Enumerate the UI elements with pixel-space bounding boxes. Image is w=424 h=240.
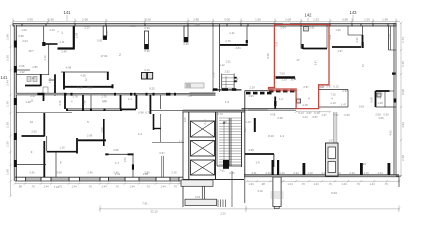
svg-text:4.28: 4.28 <box>80 74 86 78</box>
svg-text:.70: .70 <box>88 185 92 189</box>
svg-text:2.86: 2.86 <box>113 148 119 152</box>
svg-text:0.30: 0.30 <box>144 49 150 53</box>
room4 top wall <box>319 89 348 91</box>
svg-text:1.17: 1.17 <box>187 94 193 98</box>
stair dark blocks <box>234 77 237 79</box>
svg-text:1-5: 1-5 <box>179 140 183 144</box>
svg-text:0.30: 0.30 <box>229 171 235 175</box>
svg-text:2.88: 2.88 <box>194 23 200 27</box>
shaft double box <box>142 73 147 80</box>
svg-text:.70: .70 <box>384 182 388 186</box>
svg-text:7.10: 7.10 <box>330 93 336 97</box>
svg-text:0.98: 0.98 <box>18 34 24 38</box>
svg-text:1.50: 1.50 <box>255 17 261 21</box>
bottom dimension line left wing <box>14 182 183 184</box>
wall room7 bottom <box>44 43 58 45</box>
svg-text:12: 12 <box>31 76 35 80</box>
svg-text:1-3: 1-3 <box>280 134 284 138</box>
corridor wall dark blocks right <box>246 92 272 95</box>
stair direction arrow <box>224 122 227 160</box>
svg-text:8.16: 8.16 <box>130 24 136 28</box>
svg-text:141: 141 <box>64 10 72 15</box>
wall y109 <box>248 109 268 111</box>
svg-text:10: 10 <box>30 120 34 124</box>
wall wc vertical dark <box>40 74 42 86</box>
svg-text:0.76: 0.76 <box>145 111 151 115</box>
corridor wall right of core <box>245 90 269 92</box>
svg-text:141: 141 <box>1 75 9 80</box>
bottom dimension labels right wing <box>248 171 388 186</box>
left dimension line <box>9 24 11 197</box>
svg-text:3.08: 3.08 <box>56 171 62 175</box>
svg-text:0.39: 0.39 <box>344 113 350 117</box>
stair right wall <box>241 112 243 167</box>
room5 walls <box>78 139 106 141</box>
svg-text:1.44: 1.44 <box>287 182 293 186</box>
svg-text:7.06: 7.06 <box>279 72 285 76</box>
ventilation block <box>326 143 339 176</box>
svg-text:2.31: 2.31 <box>251 171 257 175</box>
svg-text:0.30: 0.30 <box>97 39 103 43</box>
duct wall to vent block <box>333 112 337 143</box>
svg-text:1.15: 1.15 <box>281 78 287 82</box>
svg-text:17.61: 17.61 <box>101 54 108 58</box>
svg-text:1.38: 1.38 <box>377 101 383 105</box>
svg-text:1.44: 1.44 <box>43 185 49 189</box>
svg-text:0.98: 0.98 <box>401 89 405 95</box>
svg-text:0.98: 0.98 <box>370 97 374 103</box>
svg-text:3.47: 3.47 <box>314 60 318 66</box>
svg-text:1.99: 1.99 <box>382 17 388 21</box>
svg-text:1.07: 1.07 <box>328 139 334 143</box>
svg-text:2.97: 2.97 <box>342 89 348 93</box>
svg-text:1.44: 1.44 <box>313 182 319 186</box>
svg-text:2.58: 2.58 <box>74 32 78 38</box>
vent shaft small <box>297 99 301 103</box>
svg-text:1.56: 1.56 <box>6 141 10 147</box>
right dimension line <box>400 22 402 177</box>
elevator shaft walls <box>188 111 190 180</box>
svg-text:2.88: 2.88 <box>193 17 199 21</box>
svg-text:1.36: 1.36 <box>243 127 247 133</box>
svg-text:2.30: 2.30 <box>6 122 10 128</box>
svg-text:.60: .60 <box>290 78 294 82</box>
room number labels <box>28 30 381 165</box>
svg-text:2.46: 2.46 <box>87 171 93 175</box>
svg-text:1.05: 1.05 <box>21 28 27 32</box>
svg-text:2.48: 2.48 <box>302 103 308 107</box>
svg-text:2.61: 2.61 <box>309 26 315 30</box>
svg-text:.70: .70 <box>31 185 35 189</box>
pier x104 <box>103 26 106 40</box>
svg-text:4.08: 4.08 <box>270 113 276 117</box>
svg-text:0.30: 0.30 <box>144 26 150 30</box>
svg-text:3.95: 3.95 <box>27 17 33 21</box>
svg-text:1.00: 1.00 <box>183 117 187 123</box>
svg-text:1.73: 1.73 <box>388 34 392 40</box>
svg-text:1-2: 1-2 <box>138 132 142 136</box>
svg-text:2: 2 <box>362 64 364 68</box>
svg-text:0.87: 0.87 <box>312 115 318 119</box>
wall x327 inside red <box>326 25 328 49</box>
free column x145 <box>145 31 149 49</box>
svg-text:1.30: 1.30 <box>248 182 254 186</box>
wall y70 left <box>16 69 30 71</box>
wall y110 right of window wall <box>150 109 183 111</box>
svg-text:1-9: 1-9 <box>255 161 259 165</box>
svg-text:1.52: 1.52 <box>224 70 230 74</box>
wall room11 right dark <box>43 93 45 101</box>
svg-text:2.23: 2.23 <box>84 26 90 30</box>
svg-text:2.00: 2.00 <box>100 127 104 133</box>
svg-text:2.96: 2.96 <box>87 134 93 138</box>
room 1-7 walls <box>245 153 274 155</box>
svg-text:1.33: 1.33 <box>313 17 319 21</box>
room3 top wall <box>61 71 109 73</box>
svg-text:.70: .70 <box>328 182 332 186</box>
svg-text:1.50: 1.50 <box>123 157 127 163</box>
svg-text:1.44: 1.44 <box>101 185 107 189</box>
svg-text:7.91: 7.91 <box>142 202 148 206</box>
svg-text:1-2: 1-2 <box>279 97 283 101</box>
svg-text:2.34: 2.34 <box>349 171 355 175</box>
svg-text:2.70: 2.70 <box>217 112 223 116</box>
svg-text:1: 1 <box>61 31 63 35</box>
small room marks <box>103 119 105 146</box>
right bay wall segment <box>388 26 390 50</box>
svg-text:2.10: 2.10 <box>330 101 336 105</box>
corridor wall dark blocks under red <box>269 90 295 93</box>
svg-text:0.30: 0.30 <box>105 30 109 36</box>
red apt door marks <box>283 24 290 26</box>
svg-text:143: 143 <box>350 10 358 15</box>
svg-text:2.16: 2.16 <box>58 100 62 106</box>
top wall mullion ticks <box>13 23 396 26</box>
room E walls dark <box>375 91 377 107</box>
svg-text:0.81: 0.81 <box>359 105 365 109</box>
svg-text:2.40: 2.40 <box>265 171 271 175</box>
svg-text:1.26: 1.26 <box>335 28 341 32</box>
wall wc bottom dark <box>25 85 41 87</box>
svg-text:1-11: 1-11 <box>229 31 235 35</box>
svg-text:.98: .98 <box>261 182 265 186</box>
svg-text:1.30: 1.30 <box>377 92 383 96</box>
partition x163 <box>161 156 163 177</box>
wall x55 vertical dark <box>54 74 56 95</box>
wall x44 lower dark <box>43 141 45 177</box>
window wall y109 left wing <box>66 109 122 110</box>
svg-text:2.86: 2.86 <box>144 171 150 175</box>
svg-text:1.4: 1.4 <box>103 100 107 104</box>
svg-text:1.60: 1.60 <box>6 169 10 175</box>
svg-text:0.13: 0.13 <box>314 111 320 115</box>
left outer wall <box>14 25 16 181</box>
svg-text:2.97: 2.97 <box>303 85 309 89</box>
elevator cab 1 <box>191 121 215 137</box>
wall 7.06 dark <box>276 76 296 78</box>
right dimension labels <box>401 37 405 161</box>
svg-text:2.10: 2.10 <box>43 55 47 61</box>
svg-text:7.06: 7.06 <box>219 169 225 173</box>
left dimension labels <box>6 34 10 175</box>
overall bottom dimension line <box>99 206 400 213</box>
svg-text:1.50: 1.50 <box>364 17 370 21</box>
svg-text:2.29: 2.29 <box>249 86 255 90</box>
svg-text:4.96: 4.96 <box>248 94 254 98</box>
room 1-11 walls <box>246 26 248 45</box>
svg-text:6.15: 6.15 <box>401 61 405 67</box>
svg-text:7.90: 7.90 <box>145 17 151 21</box>
svg-text:1.11: 1.11 <box>59 40 65 44</box>
svg-text:6.28: 6.28 <box>266 53 270 59</box>
red apt inner room bottom dark <box>303 48 327 50</box>
svg-text:2.30: 2.30 <box>203 119 207 125</box>
svg-text:2.23: 2.23 <box>49 28 55 32</box>
small stair side walls <box>221 74 223 90</box>
svg-text:1.97: 1.97 <box>337 49 343 53</box>
rotated dimension texts <box>43 30 393 163</box>
wall room1 right <box>73 26 75 50</box>
wall room7 left <box>43 26 45 44</box>
svg-text:2.96: 2.96 <box>19 64 25 68</box>
stair landing walls <box>216 112 218 166</box>
svg-text:1.76: 1.76 <box>72 94 78 98</box>
red corridor segment <box>269 90 297 92</box>
svg-text:1: 1 <box>347 32 349 36</box>
elevator front wall segment <box>190 93 216 95</box>
svg-text:0.97: 0.97 <box>159 151 165 155</box>
svg-text:2.34: 2.34 <box>377 171 383 175</box>
room1 wall right dark <box>362 35 364 48</box>
svg-text:1.44: 1.44 <box>160 185 166 189</box>
wc fixtures <box>27 77 31 82</box>
svg-text:2.86: 2.86 <box>32 65 38 69</box>
svg-text:2.08: 2.08 <box>375 113 381 117</box>
svg-text:4.92: 4.92 <box>401 122 405 128</box>
entrance railing ticks <box>218 200 226 208</box>
svg-text:0.98: 0.98 <box>138 111 144 115</box>
room1 wall bottom dark <box>332 46 361 48</box>
right outer wall <box>393 23 395 176</box>
room10 walls <box>43 113 45 137</box>
svg-text:3.23: 3.23 <box>195 195 201 199</box>
svg-text:1.52: 1.52 <box>235 77 239 83</box>
svg-text:2.30: 2.30 <box>401 155 405 161</box>
room3 left wall dark <box>63 72 65 90</box>
room9 walls <box>47 151 77 153</box>
small stair arrow <box>225 76 227 90</box>
closet walls x66-110 <box>64 95 66 109</box>
svg-text:1-12: 1-12 <box>219 63 225 67</box>
room8 walls <box>55 152 57 177</box>
entrance landing 1 <box>181 180 213 186</box>
small stair upper treads <box>222 75 234 89</box>
wall y74 left block <box>16 73 49 75</box>
entrance rails <box>201 186 203 199</box>
wall x48 vertical <box>48 44 50 75</box>
svg-text:3: 3 <box>85 78 87 82</box>
top dimension line <box>12 19 400 24</box>
svg-text:0.13: 0.13 <box>298 111 304 115</box>
right wing corner detail <box>396 175 401 177</box>
svg-text:1.98: 1.98 <box>6 34 10 40</box>
svg-text:2.97: 2.97 <box>306 111 312 115</box>
svg-text:5.93: 5.93 <box>331 191 337 195</box>
elevator cab 3 <box>191 160 215 175</box>
svg-text:17: 17 <box>296 58 300 62</box>
svg-text:1.73: 1.73 <box>401 37 405 43</box>
svg-text:2.46: 2.46 <box>113 171 119 175</box>
svg-text:8.25: 8.25 <box>149 87 155 91</box>
svg-text:2.23: 2.23 <box>302 115 308 119</box>
room 1-2 dark block <box>274 97 276 109</box>
wall room1 bottom <box>58 47 75 49</box>
svg-text:2.48: 2.48 <box>277 116 283 120</box>
svg-text:1.37: 1.37 <box>321 113 327 117</box>
bottom dimension line right wing <box>246 180 400 182</box>
elevator cab 2 <box>191 141 215 157</box>
svg-text:2.52: 2.52 <box>31 130 37 134</box>
svg-text:.70: .70 <box>173 185 177 189</box>
svg-text:142: 142 <box>305 13 313 18</box>
corridor wall y93 door jambs <box>64 93 176 96</box>
room walls below corridor middle <box>120 95 122 109</box>
bottom right wing piers <box>272 160 391 175</box>
svg-text:3.98: 3.98 <box>248 148 254 152</box>
svg-text:1.92: 1.92 <box>19 70 25 74</box>
svg-text:4.92: 4.92 <box>389 130 393 136</box>
svg-text:2: 2 <box>119 53 121 57</box>
svg-text:.98: .98 <box>18 185 22 189</box>
svg-text:2.10: 2.10 <box>212 72 216 78</box>
svg-text:15.7: 15.7 <box>28 49 34 53</box>
svg-text:1.44: 1.44 <box>341 182 347 186</box>
svg-text:0.30: 0.30 <box>183 42 189 46</box>
svg-text:2.44: 2.44 <box>6 80 10 86</box>
svg-text:0.30: 0.30 <box>383 113 389 117</box>
svg-text:1.10: 1.10 <box>245 120 251 124</box>
svg-text:2.23: 2.23 <box>220 211 226 215</box>
svg-text:8.10: 8.10 <box>268 134 274 138</box>
svg-text:1.19: 1.19 <box>363 171 369 175</box>
shaft below bottom wall <box>273 177 281 206</box>
svg-text:.70: .70 <box>301 182 305 186</box>
svg-text:4.08: 4.08 <box>66 66 72 70</box>
red apt inner room left wall <box>300 25 302 49</box>
room4 right wall <box>347 90 349 108</box>
svg-text:7.04: 7.04 <box>54 185 60 189</box>
svg-text:2.34: 2.34 <box>293 171 299 175</box>
svg-text:2.30: 2.30 <box>6 55 10 61</box>
top outer wall <box>13 24 396 26</box>
svg-text:3.19: 3.19 <box>257 189 263 193</box>
corridor wall y93 <box>64 93 213 94</box>
room 1-10 wall dark <box>254 118 256 132</box>
svg-text:5.03: 5.03 <box>87 86 93 90</box>
stair south wall y89 <box>213 88 242 90</box>
wall x361 thin <box>362 26 364 35</box>
svg-text:1-7: 1-7 <box>115 161 119 165</box>
svg-text:1-11: 1-11 <box>225 60 231 64</box>
svg-text:2.49: 2.49 <box>61 50 67 54</box>
core right wall <box>231 171 233 207</box>
svg-text:1.95: 1.95 <box>48 17 54 21</box>
room3 right wall dark stub <box>107 72 109 80</box>
svg-text:0.13: 0.13 <box>333 85 339 89</box>
svg-text:2.47: 2.47 <box>30 94 36 98</box>
svg-text:.70: .70 <box>356 182 360 186</box>
dim line below red protrusion <box>295 111 331 113</box>
pier x184 <box>184 26 188 42</box>
top dimension labels <box>27 17 388 21</box>
bottom wall right wing <box>244 175 399 177</box>
svg-text:3.03: 3.03 <box>318 85 324 89</box>
svg-text:1.16: 1.16 <box>59 146 65 150</box>
scattered dimension texts <box>18 23 389 190</box>
svg-text:1.44: 1.44 <box>129 185 135 189</box>
svg-text:11: 11 <box>31 99 34 103</box>
svg-text:1-6: 1-6 <box>225 100 229 104</box>
svg-text:1.19: 1.19 <box>307 171 313 175</box>
svg-text:2.04: 2.04 <box>280 26 286 30</box>
svg-text:0.15: 0.15 <box>144 68 150 72</box>
red apartment outline <box>269 25 330 109</box>
svg-text:0.15: 0.15 <box>77 86 83 90</box>
svg-text:2.30: 2.30 <box>355 37 359 43</box>
svg-text:2.97: 2.97 <box>326 85 332 89</box>
svg-text:1.91: 1.91 <box>48 77 52 83</box>
main stair stringer <box>228 118 230 166</box>
svg-text:3.31: 3.31 <box>275 41 279 47</box>
svg-text:2.42: 2.42 <box>29 171 35 175</box>
right wall pier <box>392 73 396 75</box>
svg-text:3.08: 3.08 <box>224 17 230 21</box>
svg-text:7.97: 7.97 <box>333 113 339 117</box>
room3 bottom wall dark <box>64 86 112 88</box>
svg-text:32.10: 32.10 <box>150 210 158 214</box>
svg-text:2.16: 2.16 <box>171 171 177 175</box>
svg-text:0.88: 0.88 <box>342 17 348 21</box>
svg-text:2.75: 2.75 <box>101 94 107 98</box>
main stair treads <box>219 118 241 165</box>
svg-text:7.48: 7.48 <box>83 100 87 106</box>
svg-text:4.06: 4.06 <box>378 116 384 120</box>
svg-text:1.44: 1.44 <box>369 182 375 186</box>
wall y112 left wing <box>16 112 72 114</box>
windows bottom left wing <box>26 178 179 181</box>
svg-text:2.84: 2.84 <box>235 46 241 50</box>
svg-text:3.31: 3.31 <box>328 34 332 40</box>
corridor wall left segment <box>16 93 64 95</box>
svg-text:1.47: 1.47 <box>341 103 347 107</box>
svg-text:1-4: 1-4 <box>128 97 132 101</box>
bottom wall left wing <box>15 176 183 178</box>
svg-text:.70: .70 <box>115 185 119 189</box>
svg-text:1.78: 1.78 <box>6 101 10 107</box>
svg-text:2.04: 2.04 <box>22 39 28 43</box>
svg-text:1.10: 1.10 <box>279 171 285 175</box>
svg-text:2.08: 2.08 <box>285 17 291 21</box>
left wall piers <box>14 41 17 168</box>
svg-text:2.96: 2.96 <box>82 17 88 21</box>
svg-text:2.75: 2.75 <box>225 39 231 43</box>
svg-text:1.44: 1.44 <box>71 185 77 189</box>
svg-text:1.48: 1.48 <box>25 100 31 104</box>
wall notch x348 <box>347 26 349 35</box>
bottom dimension labels left wing <box>18 185 177 189</box>
vent dashed box <box>185 83 204 88</box>
wall wc2 cluster <box>49 79 55 81</box>
